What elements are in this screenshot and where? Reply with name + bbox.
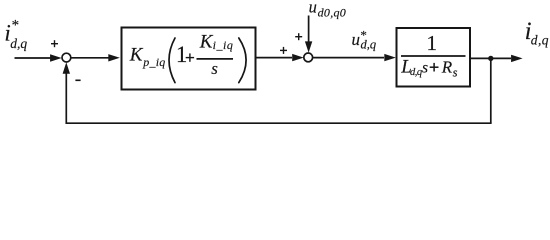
node: branch point (488, 56, 493, 61)
arrowhead into S1 (50, 54, 62, 61)
svg-text:d,q: d,q (10, 36, 27, 51)
svg-text:1: 1 (426, 31, 437, 55)
arrowhead up into S1 (63, 62, 70, 73)
svg-text:u: u (352, 30, 361, 49)
sign - at S1 (75, 79, 80, 81)
arrowhead into S2 (292, 54, 304, 61)
wire: u_d0,q0 down into S2 (308, 16, 310, 43)
svg-text:1: 1 (176, 42, 188, 67)
block G1: PI current controller (122, 28, 256, 90)
wire: G2 output (471, 57, 512, 59)
wire: G1 to summing junction S2 (257, 57, 293, 59)
svg-text:s: s (422, 59, 428, 76)
svg-text:d,q: d,q (531, 32, 549, 47)
G1 transfer-function label K_p_iq(1+K_i_iq/s) (129, 32, 246, 83)
summing junction S2 (304, 53, 313, 62)
arrowhead output (511, 55, 522, 62)
node label u*_d,q (352, 27, 377, 51)
block G2: motor winding plant (397, 28, 471, 87)
sign + at S1 (51, 40, 58, 47)
svg-text:s: s (453, 66, 458, 80)
arrowhead into PI block (108, 54, 120, 61)
wire: input to summing junction S1 (15, 57, 52, 59)
svg-text:s: s (211, 59, 218, 78)
summing junction S1 (62, 53, 71, 62)
feedforward input label u_d0,q0 (309, 0, 347, 20)
output label i_d,q (525, 18, 549, 48)
wire: S1 to PI block (71, 57, 109, 59)
G2 transfer-function label 1/(L_d,q s + R_s) (400, 31, 465, 80)
svg-text:*: * (12, 18, 20, 34)
arrowhead down into S2 (305, 41, 312, 52)
feedback wire: bottom run (66, 122, 492, 124)
input label i*_d,q (4, 18, 27, 52)
sign + at S2 (from G1) (280, 47, 287, 54)
svg-text:R: R (441, 58, 453, 77)
svg-text:K: K (129, 45, 144, 66)
svg-text:i_iq: i_iq (213, 38, 234, 52)
svg-text:K: K (199, 32, 214, 53)
feedback wire: up into S1 (65, 72, 67, 124)
feedback wire: node down (490, 58, 492, 123)
svg-text:u: u (309, 0, 317, 17)
svg-text:d,q: d,q (361, 38, 377, 52)
svg-text:d0,q0: d0,q0 (318, 6, 347, 20)
svg-text:d,q: d,q (410, 67, 422, 78)
sign + at S2 (from u_d0,q0) (295, 33, 302, 40)
arrowhead into plant block (384, 54, 396, 61)
wire: S2 to plant block (313, 57, 384, 59)
svg-text:p_iq: p_iq (142, 55, 165, 69)
